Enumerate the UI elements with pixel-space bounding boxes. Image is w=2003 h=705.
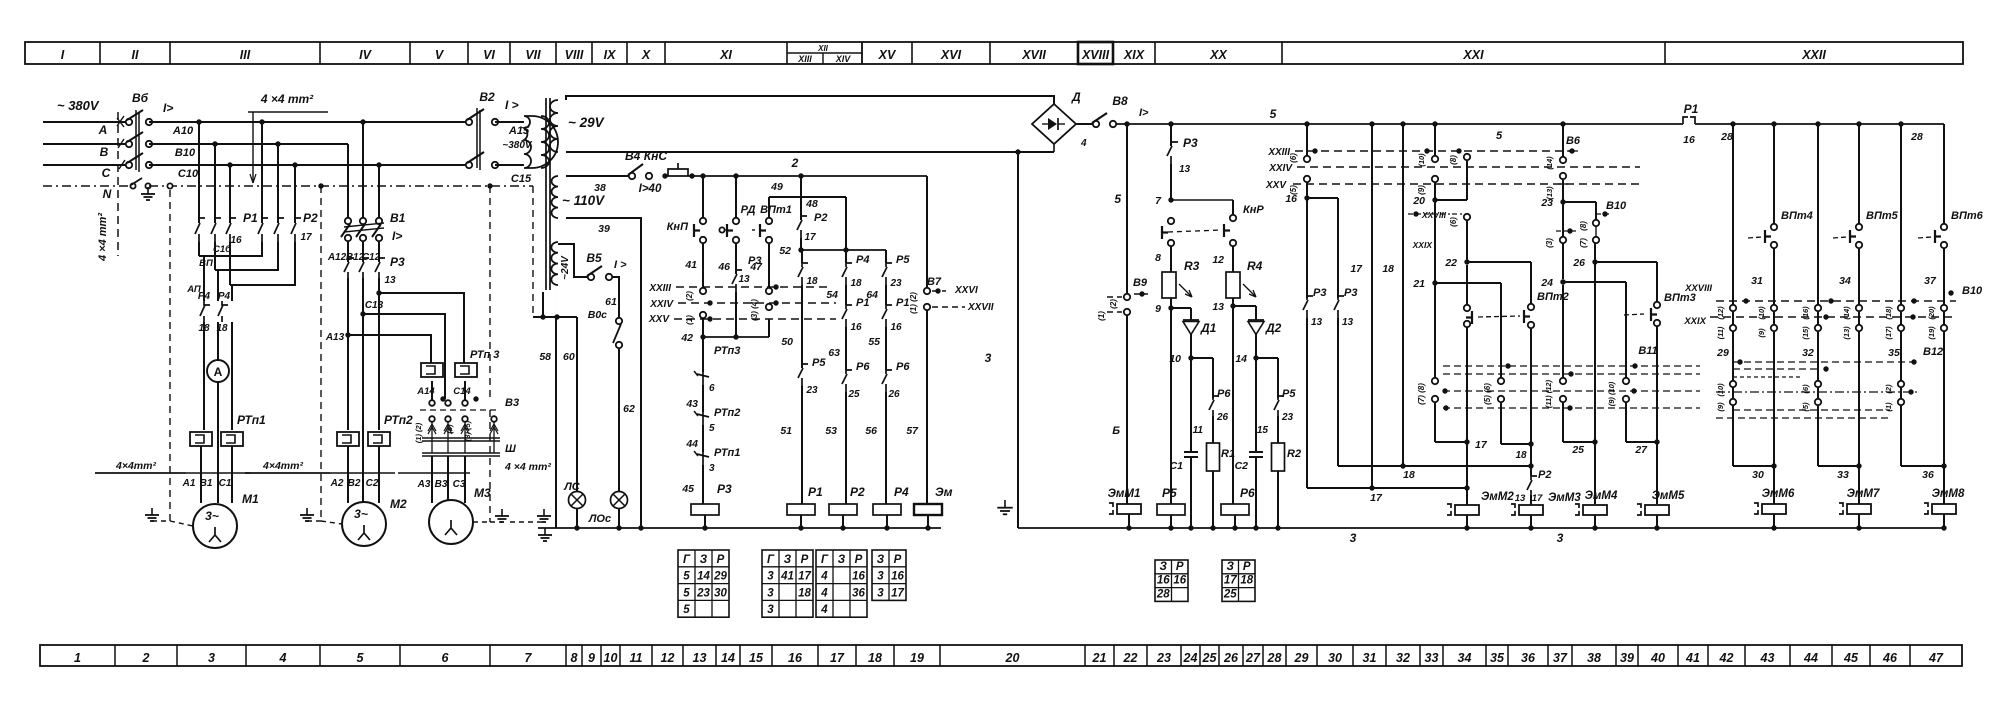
svg-text:28: 28	[1910, 131, 1923, 143]
limit switch VPt2	[1478, 291, 1569, 466]
svg-text:56: 56	[865, 425, 877, 437]
svg-text:28: 28	[1156, 588, 1170, 600]
bus 3 (DC negative rail)	[1018, 528, 1944, 545]
labels 29 32 35 B12	[1716, 346, 1943, 359]
junction dots on phase wires for feeder drops	[196, 119, 381, 167]
electromagnet coil EmM4	[1575, 490, 1618, 531]
capacitor C1 branch	[1170, 358, 1198, 531]
column 22 chain	[1408, 148, 1531, 304]
svg-text:43: 43	[1760, 651, 1775, 665]
svg-text:38: 38	[1587, 651, 1601, 665]
svg-text:47: 47	[1928, 651, 1944, 665]
svg-text:3: 3	[767, 587, 774, 599]
svg-text:III: III	[240, 48, 251, 62]
svg-text:62: 62	[623, 403, 635, 415]
svg-text:ЭмМ2: ЭмМ2	[1481, 491, 1514, 503]
svg-text:10: 10	[604, 651, 618, 665]
svg-text:4 ×4 mm²: 4 ×4 mm²	[504, 461, 551, 473]
svg-text:3~: 3~	[354, 507, 368, 521]
svg-text:4: 4	[1080, 138, 1087, 149]
svg-text:Эм: Эм	[935, 485, 953, 499]
column 24 circles (11)(12)	[1544, 285, 1598, 456]
rectifier bridge D (diamond with diode)	[1018, 90, 1087, 152]
wire neutral dash-dot to x533	[149, 185, 533, 187]
svg-text:(5) (6): (5) (6)	[1483, 383, 1492, 405]
neutral junction circles and dots	[167, 183, 492, 188]
contact P5 and resistor R2 branch	[1256, 358, 1301, 531]
wires to motor M1 terminals	[201, 382, 232, 503]
svg-text:(2): (2)	[685, 291, 694, 301]
svg-text:Р3: Р3	[1183, 136, 1198, 150]
svg-text:5: 5	[1270, 107, 1277, 121]
svg-text:(10): (10)	[1716, 383, 1725, 397]
svg-text:XXIX: XXIX	[1412, 240, 1434, 250]
svg-text:29: 29	[1294, 651, 1309, 665]
feeder drops to breaker B1	[348, 122, 379, 218]
svg-text:XXII: XXII	[1801, 48, 1826, 62]
top reference ruler with roman numeral zone labels	[25, 42, 1963, 64]
svg-text:XII: XII	[817, 44, 829, 53]
svg-text:11: 11	[1193, 425, 1204, 436]
svg-text:Р6: Р6	[1217, 388, 1231, 400]
contact P2 above EmM3	[1515, 466, 1552, 505]
svg-text:ЭмМ4: ЭмМ4	[1585, 490, 1618, 502]
svg-text:XXV: XXV	[648, 314, 670, 325]
svg-text:24: 24	[1540, 277, 1553, 289]
svg-text:13: 13	[1179, 164, 1191, 175]
svg-text:З: З	[784, 554, 792, 566]
cable marker 4x4mm2 top with leader line	[248, 92, 328, 183]
connector rows XXIII XXIV XXV (right)	[1265, 147, 1640, 191]
svg-text:Р1: Р1	[243, 211, 258, 225]
connector circles row (12)(10)(16)(14)(18)(20)	[1716, 305, 1947, 320]
wire rectifier negative vertical 3	[985, 149, 1021, 528]
branch node 13 to thermal heater feed	[376, 275, 464, 363]
svg-text:37: 37	[1553, 651, 1568, 665]
svg-text:XIII: XIII	[797, 54, 812, 64]
svg-text:С15: С15	[511, 173, 532, 185]
electromagnet coil EmM2	[1447, 488, 1514, 531]
electromagnet coil EmM3	[1511, 492, 1581, 531]
svg-text:ЛОс: ЛОс	[588, 513, 611, 525]
svg-text:51: 51	[780, 425, 792, 437]
wires B1 feeder to motor M2	[348, 293, 379, 430]
svg-text:I>40: I>40	[639, 183, 662, 195]
wire phase C from switch to transformer switch B2	[149, 164, 469, 166]
electromagnet coil EmM1	[1108, 488, 1141, 531]
thermal relay PTn1 heater elements	[190, 413, 266, 446]
svg-text:28: 28	[1720, 131, 1733, 143]
svg-text:РТп3: РТп3	[714, 345, 740, 357]
svg-text:16: 16	[788, 651, 803, 665]
svg-text:ВП: ВП	[199, 258, 213, 269]
svg-text:XXV: XXV	[1265, 180, 1287, 191]
svg-text:Б: Б	[1112, 425, 1120, 437]
svg-text:22: 22	[1444, 257, 1457, 269]
column 20 with connector circles	[1412, 121, 1467, 290]
svg-text:45: 45	[681, 483, 694, 495]
svg-text:2: 2	[142, 651, 150, 665]
svg-text:(19): (19)	[1927, 326, 1936, 340]
svg-text:34: 34	[1839, 275, 1851, 287]
svg-text:В10: В10	[1606, 200, 1627, 212]
svg-text:38: 38	[594, 182, 606, 194]
svg-text:5: 5	[683, 571, 690, 583]
svg-text:XXVII: XXVII	[967, 302, 994, 313]
svg-text:М2: М2	[390, 497, 407, 511]
svg-text:5: 5	[1114, 192, 1121, 206]
connector B11 and dashed rows mid-right	[1442, 345, 1700, 411]
svg-text:11: 11	[630, 651, 643, 665]
svg-text:А1: А1	[182, 478, 196, 489]
svg-text:18: 18	[1403, 469, 1415, 481]
svg-text:12: 12	[1212, 254, 1224, 266]
svg-text:4 ×4 mm²: 4 ×4 mm²	[97, 213, 109, 262]
svg-text:Р4: Р4	[894, 485, 909, 499]
svg-text:21: 21	[1092, 651, 1107, 665]
svg-text:4: 4	[279, 651, 287, 665]
svg-text:46: 46	[717, 261, 730, 273]
svg-text:(17): (17)	[1884, 326, 1893, 340]
svg-text:ЭмМ6: ЭмМ6	[1762, 488, 1795, 500]
button on column 22 with interlock	[1464, 265, 1472, 488]
svg-text:Р1: Р1	[1684, 102, 1699, 116]
labels 28 28 on bus 5	[1720, 131, 1923, 143]
svg-text:(11): (11)	[1716, 326, 1725, 339]
columns from bus 5 down (right block)	[1730, 121, 1903, 466]
svg-text:XXIV: XXIV	[649, 299, 674, 310]
svg-text:A: A	[214, 365, 223, 379]
feeder drop wires to contactor P2	[262, 122, 295, 223]
svg-text:5: 5	[357, 651, 365, 665]
svg-text:З: З	[838, 554, 846, 566]
svg-text:33: 33	[1837, 469, 1849, 481]
svg-text:В2: В2	[348, 478, 361, 489]
limit switch VPt5 column	[1833, 121, 1899, 466]
svg-text:3: 3	[877, 571, 884, 583]
ground at motor M2 with dashed bond	[300, 186, 342, 524]
svg-text:27: 27	[1245, 651, 1261, 665]
thermal relay PTn3 heater elements (spindle)	[421, 349, 499, 377]
svg-text:(1) (2): (1) (2)	[909, 292, 918, 314]
svg-text:С10: С10	[178, 168, 199, 180]
svg-text:XXVI: XXVI	[954, 285, 978, 296]
svg-text:3: 3	[709, 463, 715, 474]
svg-text:3: 3	[767, 604, 774, 616]
svg-text:В3: В3	[435, 479, 448, 490]
wire 18 horizontal to EmM3 branch	[1338, 450, 1534, 481]
svg-text:17: 17	[804, 232, 816, 243]
contact P2 holding on column 48	[779, 197, 827, 257]
svg-text:I>: I>	[392, 229, 402, 243]
control return bus with ground (middle)	[538, 528, 941, 541]
svg-text:16: 16	[852, 571, 865, 583]
svg-text:ЭмМ5: ЭмМ5	[1652, 490, 1685, 502]
svg-text:Р5: Р5	[1162, 486, 1177, 500]
faint dashed rows	[1716, 410, 1890, 418]
svg-text:Р: Р	[801, 554, 809, 566]
svg-text:16: 16	[230, 235, 242, 246]
svg-text:47: 47	[749, 261, 763, 273]
svg-text:XV: XV	[878, 48, 897, 62]
switch B2 (2-pole) feeding control transformer	[466, 90, 519, 170]
wire 29V bottom to rectifier bridge	[566, 151, 1054, 153]
cable boundary 4x4mm2 at motor M2	[245, 460, 395, 473]
svg-text:ЭмМ3: ЭмМ3	[1548, 492, 1581, 504]
svg-text:(7): (7)	[1579, 238, 1588, 248]
svg-text:26: 26	[1572, 257, 1585, 269]
svg-text:19: 19	[910, 651, 924, 665]
svg-text:З: З	[1160, 561, 1168, 573]
svg-text:30: 30	[714, 587, 727, 599]
svg-text:КнП: КнП	[667, 221, 689, 233]
contactor P2 main contacts	[258, 211, 318, 243]
svg-text:Д1: Д1	[1200, 321, 1217, 335]
svg-text:26: 26	[1223, 651, 1239, 665]
svg-text:3: 3	[208, 651, 215, 665]
svg-text:60: 60	[563, 351, 575, 363]
svg-text:36: 36	[1922, 469, 1934, 481]
svg-text:ВПт6: ВПт6	[1951, 210, 1984, 222]
wire neutral N incoming (dash-dot)	[43, 185, 129, 187]
svg-text:5: 5	[683, 604, 690, 616]
wire phase C incoming	[43, 164, 126, 166]
bus 5 (DC positive rail)	[1116, 107, 1944, 142]
svg-text:31: 31	[1751, 275, 1763, 287]
svg-text:16: 16	[1173, 575, 1186, 587]
svg-text:I>: I>	[1139, 107, 1149, 119]
svg-text:23: 23	[889, 278, 902, 289]
svg-text:ВПт5: ВПт5	[1866, 210, 1899, 222]
svg-text:17: 17	[300, 232, 312, 243]
jog 24 and 26 to VPt3	[1560, 243, 1657, 302]
svg-text:40: 40	[1650, 651, 1665, 665]
svg-text:13: 13	[1342, 317, 1354, 328]
wire 2 drop to column B7	[926, 176, 928, 287]
svg-text:З: З	[877, 554, 885, 566]
column 16 with connector circles and P3 contacts	[1285, 121, 1357, 488]
labels 31 34 37	[1751, 275, 1937, 287]
ammeter A in phase B of motor M1 feeder	[207, 322, 229, 430]
thermal contact PTn3 in chain	[685, 337, 740, 410]
svg-text:Р: Р	[717, 554, 725, 566]
svg-text:33: 33	[1425, 651, 1439, 665]
svg-text:16: 16	[890, 322, 902, 333]
svg-text:45: 45	[1843, 651, 1859, 665]
svg-text:XX: XX	[1209, 48, 1227, 62]
svg-text:Р3: Р3	[1313, 287, 1326, 299]
pressure switch RD on column 46	[717, 173, 761, 337]
svg-text:РТп2: РТп2	[384, 413, 413, 427]
svg-text:С12: С12	[362, 252, 381, 263]
svg-text:16: 16	[1683, 134, 1695, 146]
connector circles column 41/42	[685, 288, 713, 325]
svg-text:16: 16	[850, 322, 862, 333]
wire 17 horizontal to EmM2	[1307, 485, 1470, 504]
svg-text:25: 25	[1223, 588, 1237, 600]
wire phase B incoming	[43, 143, 126, 145]
svg-text:З: З	[1227, 561, 1235, 573]
svg-text:XVI: XVI	[940, 48, 962, 62]
svg-text:VI: VI	[483, 48, 495, 62]
svg-text:В11: В11	[1638, 345, 1657, 357]
svg-text:ЭмМ8: ЭмМ8	[1932, 488, 1965, 500]
svg-text:А15: А15	[508, 125, 530, 137]
svg-text:Д: Д	[1071, 90, 1081, 104]
svg-text:42: 42	[680, 332, 693, 344]
svg-text:ВПт2: ВПт2	[1537, 291, 1569, 303]
svg-text:(9) (10): (9) (10)	[1607, 381, 1616, 406]
svg-text:42: 42	[1719, 651, 1734, 665]
svg-text:РТп1: РТп1	[237, 413, 266, 427]
svg-text:14: 14	[721, 651, 735, 665]
svg-text:ЛС: ЛС	[563, 481, 581, 493]
svg-text:(9): (9)	[1716, 402, 1725, 412]
svg-text:X: X	[641, 48, 651, 62]
svg-text:(3) (4): (3) (4)	[750, 299, 759, 321]
svg-text:В10: В10	[1962, 285, 1983, 297]
svg-text:Р4: Р4	[856, 254, 869, 266]
svg-text:18: 18	[806, 276, 818, 287]
svg-text:9: 9	[1155, 303, 1161, 315]
svg-text:I: I	[61, 48, 65, 62]
dashed cable boundary x=118	[117, 112, 119, 256]
svg-text:(2): (2)	[1109, 299, 1118, 309]
grounds at motor M3 with dashed bonds	[473, 410, 551, 522]
svg-text:25: 25	[1202, 651, 1218, 665]
svg-text:II: II	[132, 48, 139, 62]
svg-text:5: 5	[1496, 130, 1503, 142]
svg-text:44: 44	[1803, 651, 1818, 665]
svg-text:23: 23	[1281, 412, 1294, 423]
feeder drop wires to contactor P1 (motor M1)	[199, 122, 230, 223]
transformer secondary ~110V winding	[551, 176, 605, 218]
svg-text:35: 35	[1490, 651, 1505, 665]
wire node 42 horizontal collector	[680, 319, 769, 344]
svg-text:20: 20	[1412, 195, 1425, 207]
wires P1 outputs down	[199, 242, 232, 285]
svg-text:14: 14	[697, 571, 710, 583]
svg-text:В1: В1	[390, 211, 406, 225]
contact P6 and resistor R1 branch	[1191, 358, 1235, 531]
svg-text:З: З	[700, 554, 708, 566]
svg-text:ВПт4: ВПт4	[1781, 210, 1813, 222]
svg-text:4: 4	[820, 587, 828, 599]
phase name labels A B C N	[98, 123, 112, 201]
svg-text:61: 61	[605, 296, 617, 308]
resistor R3 with wiper	[1155, 246, 1200, 315]
main switch B (3-pole with overcurrent release I>)	[126, 91, 174, 172]
svg-text:В0с: В0с	[588, 309, 607, 321]
connector circles row (9)(5)(1)	[1716, 399, 1904, 412]
svg-text:29: 29	[713, 571, 727, 583]
svg-text:44: 44	[685, 438, 698, 450]
svg-text:54: 54	[826, 289, 838, 301]
svg-text:Р4: Р4	[218, 291, 231, 302]
svg-text:15: 15	[749, 651, 764, 665]
svg-text:43: 43	[685, 398, 698, 410]
svg-text:XVIII: XVIII	[1081, 48, 1110, 62]
svg-text:XIV: XIV	[835, 54, 852, 64]
limit switch VPt6 column at bus end	[1918, 124, 1984, 466]
svg-text:С14: С14	[453, 386, 471, 397]
column 5 down to EmM1 with connector B9	[1097, 124, 1148, 504]
svg-text:41: 41	[684, 259, 697, 271]
wire phase A from switch to transformer switch B2	[149, 121, 469, 123]
svg-text:50: 50	[781, 336, 793, 348]
svg-text:1: 1	[74, 651, 81, 665]
svg-text:Р5: Р5	[896, 254, 910, 266]
svg-text:Р1: Р1	[896, 297, 909, 309]
svg-text:(1) (2): (1) (2)	[414, 422, 423, 443]
svg-text:А10: А10	[172, 125, 194, 137]
svg-text:4×4mm²: 4×4mm²	[115, 460, 156, 472]
svg-text:17: 17	[891, 587, 904, 599]
svg-text:IX: IX	[604, 48, 616, 62]
svg-text:Р: Р	[1243, 561, 1251, 573]
svg-text:В8: В8	[1112, 94, 1128, 108]
svg-text:~380V: ~380V	[502, 140, 533, 151]
svg-text:(6): (6)	[1449, 217, 1458, 227]
limit switch VPt4 column	[1748, 121, 1813, 466]
svg-text:(3): (3)	[1545, 238, 1554, 248]
svg-text:A: A	[98, 123, 108, 137]
svg-text:XIX: XIX	[1123, 48, 1145, 62]
svg-text:21: 21	[1412, 278, 1425, 290]
svg-text:41: 41	[780, 571, 794, 583]
svg-text:(8): (8)	[1449, 155, 1458, 165]
wire labels A10 B10 C10	[172, 125, 199, 180]
relay coil P3	[691, 465, 732, 531]
svg-text:4×4mm²: 4×4mm²	[262, 460, 303, 472]
svg-text:Р6: Р6	[896, 361, 910, 373]
svg-text:XXIII: XXIII	[1267, 147, 1290, 158]
electromagnet coil EmM7	[1839, 488, 1880, 531]
svg-text:16: 16	[1157, 575, 1170, 587]
wires M1 feeder down to thermal relay	[204, 322, 232, 430]
thermal contact PTn1 in chain	[681, 425, 740, 495]
svg-text:(13): (13)	[1842, 326, 1851, 340]
wires PTn3 outputs to connector	[432, 381, 465, 400]
contactor P3 main contacts	[327, 241, 405, 278]
svg-text:31: 31	[1363, 651, 1377, 665]
button KnR interlocked pair	[1162, 200, 1264, 246]
wire 58 60 labels	[539, 351, 575, 363]
dash-dot row with tap	[1716, 389, 1920, 394]
ground symbol right of Em coil	[1004, 500, 1006, 508]
svg-text:20: 20	[1005, 651, 1020, 665]
svg-text:23: 23	[1156, 651, 1171, 665]
svg-text:Ш: Ш	[505, 443, 516, 455]
svg-text:4 ×4 mm²: 4 ×4 mm²	[260, 92, 314, 106]
svg-text:22: 22	[1123, 651, 1138, 665]
ground at motor M1 with dashed bond	[145, 190, 193, 526]
svg-text:(9): (9)	[1417, 185, 1426, 195]
svg-text:Р6: Р6	[856, 361, 870, 373]
svg-text:(14): (14)	[1545, 156, 1554, 170]
contact data table 1 (G Z R / 5 14 29)	[678, 550, 729, 617]
svg-text:VII: VII	[525, 48, 541, 62]
contact data table 6 (3 P / 17 18 / 25)	[1222, 560, 1255, 601]
svg-text:C: C	[102, 166, 111, 180]
svg-text:XXIV: XXIV	[1268, 163, 1293, 174]
svg-text:Р2: Р2	[303, 211, 318, 225]
svg-text:В7: В7	[927, 276, 942, 288]
svg-text:32: 32	[1396, 651, 1410, 665]
svg-text:С13: С13	[365, 300, 384, 311]
electromagnet coil EmM5	[1637, 490, 1685, 531]
svg-text:Р5: Р5	[1282, 388, 1296, 400]
